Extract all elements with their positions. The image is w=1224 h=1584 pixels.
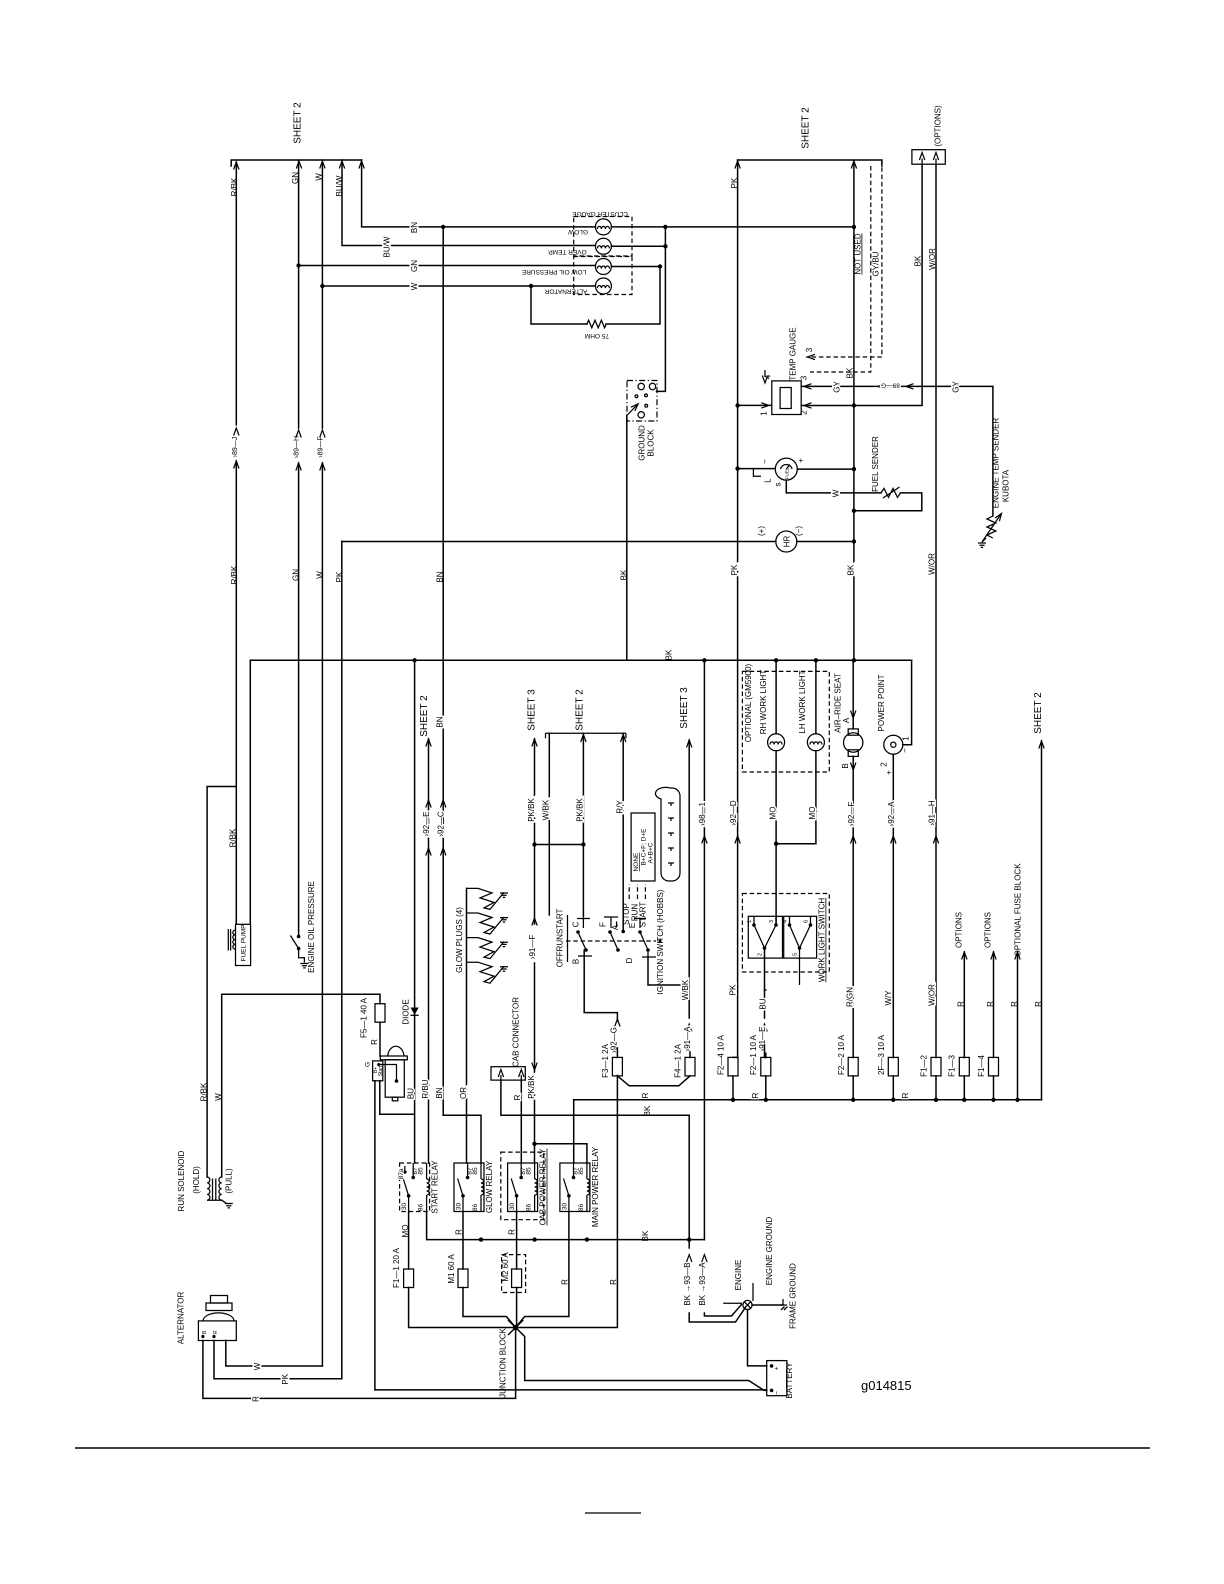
svg-text:W: W bbox=[214, 1093, 223, 1101]
svg-text:›89—F: ›89—F bbox=[317, 436, 324, 457]
svg-text:86: 86 bbox=[472, 1204, 479, 1212]
svg-text:BK: BK bbox=[914, 255, 923, 266]
svg-text:(PULL): (PULL) bbox=[225, 1168, 234, 1194]
svg-text:4: 4 bbox=[783, 920, 789, 923]
svg-text:ENGINE OIL PRESSURE: ENGINE OIL PRESSURE bbox=[307, 881, 316, 973]
svg-text:R/BK: R/BK bbox=[230, 565, 239, 584]
wire BK down to 93-B junction bbox=[687, 1115, 691, 1248]
ignition key icon bbox=[655, 787, 680, 881]
svg-text:RUN SOLENOID: RUN SOLENOID bbox=[177, 1150, 186, 1211]
svg-text:BK: BK bbox=[643, 1105, 652, 1116]
svg-text:GN: GN bbox=[410, 260, 419, 272]
svg-text:NONE: NONE bbox=[633, 852, 640, 871]
top-left off-page bus to SHEET 2 bbox=[231, 102, 364, 169]
svg-text:PK: PK bbox=[730, 564, 739, 575]
svg-text:›98—1: ›98—1 bbox=[698, 801, 707, 826]
svg-text:GLOW PLUGS (4): GLOW PLUGS (4) bbox=[455, 907, 464, 973]
svg-text:R: R bbox=[609, 1279, 618, 1285]
svg-text:LH WORK LIGHT: LH WORK LIGHT bbox=[798, 670, 807, 733]
battery bbox=[767, 1361, 794, 1399]
svg-text:85: 85 bbox=[578, 1167, 585, 1175]
svg-text:BK: BK bbox=[847, 564, 856, 575]
svg-text:F2—2 10 A: F2—2 10 A bbox=[837, 1034, 846, 1075]
svg-text:›92—F: ›92—F bbox=[847, 802, 856, 827]
svg-text:BN: BN bbox=[436, 571, 445, 582]
svg-text:86: 86 bbox=[526, 1204, 533, 1212]
svg-text:START: START bbox=[638, 902, 647, 928]
svg-text:−: − bbox=[774, 1391, 781, 1395]
wire R bus right end to SHEET 2 bbox=[1033, 692, 1044, 1100]
svg-text:3: 3 bbox=[805, 347, 814, 352]
svg-text:FUEL SENDER: FUEL SENDER bbox=[871, 436, 880, 492]
fuse F1-1 20 A bbox=[392, 1247, 516, 1327]
svg-text:1: 1 bbox=[901, 736, 910, 741]
svg-text:Start: Start bbox=[378, 1065, 384, 1076]
wire BU/W bbox=[335, 160, 595, 257]
svg-text:›91—H: ›91—H bbox=[927, 800, 936, 826]
alternator bbox=[177, 1292, 237, 1345]
fuel pump bbox=[228, 924, 250, 965]
svg-text:›92—E: ›92—E bbox=[422, 812, 431, 837]
svg-text:F1—4: F1—4 bbox=[977, 1055, 986, 1077]
svg-text:CAB CONNECTOR: CAB CONNECTOR bbox=[512, 997, 521, 1067]
svg-text:F: F bbox=[599, 922, 608, 927]
wire R/Y to ignition bbox=[615, 733, 625, 933]
lamp LH work light bbox=[774, 660, 825, 846]
fuse F1-3 bbox=[948, 1055, 970, 1102]
glow plug 2 bbox=[467, 913, 509, 934]
svg-text:›91—A: ›91—A bbox=[683, 1026, 692, 1052]
svg-text:A: A bbox=[611, 924, 620, 930]
wire R feed to F5-1 and starter bbox=[222, 994, 380, 1045]
wire work light to switch bbox=[775, 844, 777, 925]
wire W horizontal to ALTERNATOR lamp bbox=[320, 282, 595, 290]
wire W/BK sheet3 connector (ignition A) bbox=[679, 687, 692, 1052]
svg-text:START RELAY: START RELAY bbox=[431, 1160, 440, 1214]
svg-text:F1—3: F1—3 bbox=[948, 1055, 957, 1077]
wire W alternator bbox=[226, 1341, 323, 1371]
svg-text:PK: PK bbox=[728, 984, 737, 995]
wire F1-4 column to OPTIONS bbox=[984, 912, 997, 1058]
svg-text:W/OR: W/OR bbox=[928, 248, 937, 270]
svg-text:BU/W: BU/W bbox=[383, 236, 392, 257]
wire cab connector right pin R to cab relay 87 bbox=[513, 1080, 522, 1163]
svg-text:ENGINE TEMP SENDER: ENGINE TEMP SENDER bbox=[992, 418, 1001, 509]
svg-text:NOT USED: NOT USED bbox=[854, 233, 863, 274]
svg-text:ENGINE GROUND: ENGINE GROUND bbox=[765, 1217, 774, 1286]
svg-text:86: 86 bbox=[578, 1204, 585, 1212]
svg-text:HR: HR bbox=[783, 536, 792, 548]
svg-text:OFFRUNSTART: OFFRUNSTART bbox=[555, 908, 564, 967]
svg-text:OPTIONAL FUSE BLOCK: OPTIONAL FUSE BLOCK bbox=[1014, 863, 1023, 957]
svg-text:F1—1 20 A: F1—1 20 A bbox=[392, 1247, 401, 1288]
fuse F4-1 2A bbox=[673, 1043, 695, 1077]
svg-text:BK →93—B: BK →93—B bbox=[683, 1262, 692, 1305]
svg-text:LOW OIL PRESSURE: LOW OIL PRESSURE bbox=[521, 268, 586, 275]
wire MO start relay 30 to F1-1 bbox=[401, 1211, 410, 1269]
engine temp sender bbox=[978, 418, 1010, 548]
fuse F2-2 10 A bbox=[837, 1034, 858, 1102]
svg-text:DIODE: DIODE bbox=[402, 999, 411, 1024]
svg-text:89—G: 89—G bbox=[881, 382, 900, 389]
svg-text:BK: BK bbox=[665, 649, 674, 660]
svg-text:PK/BK: PK/BK bbox=[527, 1075, 536, 1099]
svg-text:SHEET 3: SHEET 3 bbox=[679, 687, 690, 729]
lamp ALTERNATOR bbox=[544, 278, 611, 295]
svg-text:›91—E: ›91—E bbox=[758, 1027, 767, 1052]
svg-text:3: 3 bbox=[800, 375, 809, 380]
svg-text:+: + bbox=[885, 770, 894, 775]
fuel sender resistor loop bbox=[786, 436, 922, 513]
svg-text:F2—4 10 A: F2—4 10 A bbox=[717, 1034, 726, 1075]
lamp GLOW bbox=[567, 219, 611, 235]
wire junction to battery (+) bbox=[523, 1335, 767, 1391]
svg-text:SHEET 3: SHEET 3 bbox=[527, 689, 538, 731]
wire R from F3-1 down to junction bbox=[516, 1076, 619, 1328]
svg-text:W/Y: W/Y bbox=[884, 990, 893, 1006]
svg-text:R: R bbox=[213, 1330, 219, 1334]
svg-text:30: 30 bbox=[401, 1203, 408, 1211]
wire W/BK to bracket bbox=[542, 733, 551, 915]
wire Start terminal to BU bbox=[380, 1081, 415, 1115]
fuse F1-2 bbox=[919, 1055, 941, 1102]
svg-text:BLOCK: BLOCK bbox=[647, 429, 656, 457]
svg-text:GN: GN bbox=[291, 172, 300, 184]
run solenoid bbox=[177, 1150, 234, 1211]
wire BK from fuel pump to BK bus bbox=[249, 660, 251, 924]
lamp LOW OIL PRESSURE bbox=[521, 259, 611, 276]
svg-text:OPTIONS: OPTIONS bbox=[955, 912, 964, 948]
svg-text:s: s bbox=[774, 483, 783, 487]
wire switch pin2 to 91-E / F2-1 bbox=[758, 948, 767, 1058]
svg-text:R: R bbox=[1034, 1001, 1043, 1007]
fuse F3-1 2A bbox=[601, 1043, 690, 1085]
svg-text:R: R bbox=[561, 1279, 570, 1285]
svg-text:R: R bbox=[901, 1092, 910, 1098]
svg-text:GY: GY bbox=[833, 381, 842, 393]
relay MAIN POWER RELAY bbox=[560, 1146, 600, 1227]
wire PK bus (right) bbox=[728, 160, 740, 1058]
svg-text:R: R bbox=[508, 1229, 517, 1235]
wire cab connector left pin to BK line bbox=[501, 1080, 689, 1115]
sheet 2 bracket over ignition wires bbox=[546, 689, 626, 742]
diode and wire BU to start relay 87 bbox=[402, 658, 419, 1163]
fuse F2-1 10 A bbox=[749, 1034, 771, 1102]
svg-text:›89—J: ›89—J bbox=[232, 437, 239, 458]
relay START RELAY bbox=[398, 1160, 440, 1214]
svg-text:M2 60 A: M2 60 A bbox=[501, 1252, 510, 1282]
glow plugs (4) bbox=[455, 888, 468, 1163]
svg-text:W: W bbox=[832, 489, 841, 497]
wire R/BK bus (fuel pump feed) bbox=[229, 162, 240, 924]
work light switch bbox=[742, 894, 829, 986]
svg-text:L: L bbox=[764, 478, 773, 483]
svg-text:85: 85 bbox=[472, 1167, 479, 1175]
svg-text:BN: BN bbox=[436, 716, 445, 727]
hour meter HR bbox=[342, 526, 856, 552]
air-ride seat bbox=[834, 660, 863, 1057]
wire to OPTIONAL FUSE BLOCK bbox=[1010, 863, 1023, 1100]
fuse F1-4 bbox=[977, 1055, 999, 1102]
svg-text:M1 60 A: M1 60 A bbox=[447, 1254, 456, 1284]
svg-text:›91—F: ›91—F bbox=[528, 935, 537, 960]
svg-text:GROUND: GROUND bbox=[638, 425, 647, 461]
wire PK/BK sheet3 connector and 91-F to cab power relay bbox=[527, 689, 587, 1163]
svg-text:F4—1 2A: F4—1 2A bbox=[673, 1043, 682, 1077]
dashed NOT USED lines bbox=[805, 160, 882, 372]
svg-text:PK: PK bbox=[730, 177, 739, 188]
svg-text:1: 1 bbox=[747, 920, 753, 923]
svg-text:BATTERY: BATTERY bbox=[785, 1362, 794, 1399]
fuse F5-1 40 A bbox=[359, 997, 385, 1056]
svg-text:FRAME GROUND: FRAME GROUND bbox=[788, 1263, 797, 1329]
fuel gauge bbox=[735, 458, 856, 487]
svg-text:2: 2 bbox=[880, 762, 889, 767]
wire 98-1 from BK bus down to 93-A bbox=[698, 660, 707, 1239]
svg-text:4: 4 bbox=[764, 374, 773, 379]
ground block (dash-dot) bbox=[627, 381, 657, 461]
connector 93-A to engine ground bbox=[698, 1255, 742, 1316]
svg-text:85: 85 bbox=[526, 1167, 533, 1175]
relay BK coil-return bus bbox=[427, 1211, 705, 1241]
svg-text:JUNCTION BLOCK: JUNCTION BLOCK bbox=[498, 1327, 507, 1397]
power point bbox=[877, 660, 912, 1057]
wire glow lamp to BK corner bbox=[611, 161, 854, 660]
svg-text:W/OR: W/OR bbox=[928, 984, 937, 1006]
wire GY temp sender line bbox=[801, 381, 993, 516]
wire main relay 30 to junction bbox=[516, 1211, 570, 1327]
wire GN bus bbox=[291, 160, 301, 936]
wire battery cable (starter to battery -) bbox=[375, 1389, 767, 1391]
svg-text:(HOLD): (HOLD) bbox=[192, 1166, 201, 1194]
svg-text:BN: BN bbox=[435, 1087, 444, 1098]
engine oil pressure switch bbox=[290, 881, 316, 973]
svg-text:R: R bbox=[1010, 1001, 1019, 1007]
svg-text:B+C+F; D+E: B+C+F; D+E bbox=[640, 828, 647, 866]
svg-text:F5—1 40 A: F5—1 40 A bbox=[359, 997, 368, 1038]
relay CAB POWER RELAY bbox=[501, 1148, 548, 1225]
wire W bus bbox=[315, 160, 325, 1366]
connector 93-B to engine ground bbox=[683, 1255, 745, 1322]
wire R alternator to junction block bbox=[203, 1328, 516, 1402]
svg-text:B: B bbox=[202, 1330, 208, 1334]
svg-text:3: 3 bbox=[769, 920, 775, 923]
frame ground bbox=[752, 1263, 797, 1329]
wire to ground block bbox=[657, 246, 666, 391]
svg-text:OPTIONAL (GM5900): OPTIONAL (GM5900) bbox=[744, 663, 753, 742]
svg-text:BN: BN bbox=[410, 222, 419, 233]
svg-text:75 OHM: 75 OHM bbox=[585, 332, 609, 339]
svg-text:W: W bbox=[315, 173, 324, 181]
svg-text:W/BK: W/BK bbox=[681, 979, 690, 1000]
svg-text:SHEET 2: SHEET 2 bbox=[574, 689, 585, 731]
svg-text:A+B+C: A+B+C bbox=[647, 842, 654, 863]
wire W/OR bus (right) bbox=[927, 164, 938, 1057]
svg-text:BU: BU bbox=[758, 998, 767, 1009]
svg-text:R: R bbox=[370, 1039, 379, 1045]
svg-text:5: 5 bbox=[793, 953, 799, 956]
wire PK left bus vertical bbox=[335, 542, 344, 1379]
svg-text:30: 30 bbox=[509, 1203, 516, 1211]
lamp OVER TEMP bbox=[547, 238, 611, 255]
svg-text:SHEET 2: SHEET 2 bbox=[419, 695, 430, 737]
svg-text:PK: PK bbox=[335, 571, 344, 582]
ignition legend STOP RUN START bbox=[622, 813, 655, 927]
wire BN bus vertical bbox=[435, 227, 481, 1163]
svg-text:SHEET 2: SHEET 2 bbox=[293, 102, 304, 144]
svg-text:6: 6 bbox=[804, 920, 810, 923]
wire BN from top bus bbox=[362, 160, 596, 233]
wire overtemp right bbox=[611, 245, 665, 247]
fuse F2-4 10 A bbox=[717, 1034, 738, 1102]
svg-text:BK: BK bbox=[846, 367, 855, 378]
wire low-oil right bbox=[611, 266, 660, 268]
fuse M2 60 A (dashed holder) bbox=[501, 1252, 526, 1328]
BK bus horizontal bbox=[250, 649, 911, 663]
svg-text:87a: 87a bbox=[398, 1168, 405, 1179]
svg-text:+: + bbox=[774, 1366, 781, 1370]
wire jumper glow to overtemp bbox=[663, 225, 667, 249]
glow plug 4 bbox=[467, 962, 509, 983]
svg-text:1: 1 bbox=[760, 411, 769, 416]
svg-text:F2—1 10 A: F2—1 10 A bbox=[749, 1034, 758, 1075]
svg-text:PK/BK: PK/BK bbox=[527, 798, 536, 822]
footer mark bbox=[585, 1512, 641, 1514]
svg-text:GLOW RELAY: GLOW RELAY bbox=[485, 1160, 494, 1213]
svg-text:R/BK: R/BK bbox=[200, 1082, 209, 1101]
cluster gauge dashed boxes bbox=[572, 210, 632, 295]
wire PK/BK to ignition C bbox=[576, 733, 585, 917]
wire engine ground to battery + bbox=[748, 1310, 767, 1366]
svg-text:CLUSTER GAUGE: CLUSTER GAUGE bbox=[572, 210, 628, 217]
svg-text:›92—C: ›92—C bbox=[437, 811, 446, 837]
svg-text:A: A bbox=[842, 717, 851, 723]
relay GLOW RELAY bbox=[454, 1160, 494, 1213]
svg-text:GN: GN bbox=[292, 569, 301, 581]
wire R/BK to run solenoid bbox=[200, 787, 237, 1178]
svg-text:BU: BU bbox=[407, 1088, 416, 1099]
starter motor bbox=[364, 1046, 407, 1101]
svg-text:PK/BK: PK/BK bbox=[576, 798, 585, 822]
svg-text:W: W bbox=[315, 571, 324, 579]
svg-text:MO: MO bbox=[401, 1225, 410, 1238]
ground block switch arm and BK drop wire bbox=[620, 402, 641, 660]
svg-text:KUBOTA: KUBOTA bbox=[1001, 469, 1010, 502]
temp gauge bbox=[735, 327, 808, 415]
svg-text:BU/W: BU/W bbox=[335, 175, 344, 196]
svg-text:OVER TEMP.: OVER TEMP. bbox=[547, 248, 586, 255]
svg-text:W/BK: W/BK bbox=[542, 799, 551, 820]
svg-text:›89—H: ›89—H bbox=[294, 436, 301, 458]
svg-text:W: W bbox=[253, 1362, 262, 1370]
svg-text:30: 30 bbox=[456, 1203, 463, 1211]
svg-text:R/GN: R/GN bbox=[845, 987, 854, 1007]
svg-text:W/OR: W/OR bbox=[928, 553, 937, 575]
svg-text:2: 2 bbox=[758, 953, 764, 956]
svg-text:POWER POINT: POWER POINT bbox=[877, 674, 886, 731]
wire PK alternator bbox=[214, 1341, 342, 1385]
wire battery cable from starter B+ bbox=[374, 1081, 376, 1390]
svg-text:R: R bbox=[986, 1001, 995, 1007]
svg-text:(−): (−) bbox=[795, 526, 804, 536]
svg-text:WORK LIGHT SWITCH: WORK LIGHT SWITCH bbox=[818, 898, 827, 983]
svg-text:MO: MO bbox=[808, 807, 817, 820]
svg-text:R: R bbox=[957, 1001, 966, 1007]
svg-text:+: + bbox=[797, 458, 806, 463]
svg-text:ALTERNATOR: ALTERNATOR bbox=[544, 288, 587, 295]
svg-text:›92—D: ›92—D bbox=[729, 800, 738, 826]
svg-text:(OPTIONS): (OPTIONS) bbox=[933, 105, 942, 147]
junction block X bbox=[498, 1321, 522, 1398]
svg-text:F3—1 2A: F3—1 2A bbox=[601, 1043, 610, 1077]
wire BK gauge bus labels bbox=[846, 367, 856, 575]
svg-text:GY: GY bbox=[951, 381, 960, 393]
fuse M1 60 A bbox=[447, 1254, 516, 1328]
svg-text:F1—2: F1—2 bbox=[919, 1055, 928, 1077]
svg-text:B: B bbox=[841, 763, 850, 768]
glow plug 1 bbox=[467, 888, 509, 909]
svg-text:−: − bbox=[761, 459, 770, 464]
svg-text:W: W bbox=[410, 282, 419, 290]
work lights dashed box bbox=[742, 663, 829, 772]
top-right off-page bus to SHEET 2 bbox=[735, 107, 882, 169]
svg-text:SHEET 2: SHEET 2 bbox=[1033, 692, 1044, 734]
svg-text:ENGINE: ENGINE bbox=[734, 1260, 743, 1291]
wire F1-3 column to OPTIONS bbox=[955, 912, 968, 1058]
svg-text:D: D bbox=[625, 957, 634, 963]
svg-text:R/BK: R/BK bbox=[229, 828, 238, 847]
svg-text:C: C bbox=[572, 921, 581, 927]
svg-text:BK: BK bbox=[641, 1230, 650, 1241]
svg-text:›92—A: ›92—A bbox=[887, 801, 896, 827]
resistor 75 OHM loop bbox=[529, 264, 662, 339]
svg-text:MAIN POWER RELAY: MAIN POWER RELAY bbox=[591, 1146, 600, 1227]
svg-text:85: 85 bbox=[418, 1167, 425, 1175]
wire ignition D to 91-A / F4-1 bbox=[648, 957, 689, 1018]
wire ignition B to 92-G / F3-1 bbox=[584, 950, 620, 1053]
svg-text:R/Y: R/Y bbox=[615, 800, 624, 814]
svg-text:2F—3 10 A: 2F—3 10 A bbox=[877, 1034, 886, 1075]
svg-text:R: R bbox=[455, 1229, 464, 1235]
svg-text:g014815: g014815 bbox=[861, 1378, 912, 1393]
cab connector bbox=[491, 997, 525, 1080]
engine ground point bbox=[723, 1217, 774, 1310]
svg-text:G: G bbox=[364, 1062, 371, 1067]
wire GN horizontal to LOW OIL lamp bbox=[296, 260, 595, 272]
wire R/BU start-relay coil feed with 92-E connector bbox=[419, 695, 431, 1163]
svg-text:R: R bbox=[751, 1092, 760, 1098]
(OPTIONS) connector box bbox=[912, 105, 945, 164]
svg-text:FUEL: FUEL bbox=[785, 467, 790, 479]
wire cab relay 30 to M2 bbox=[508, 1211, 517, 1269]
svg-text:GY/BU: GY/BU bbox=[872, 251, 881, 276]
svg-text:MO: MO bbox=[768, 807, 777, 820]
svg-text:R/BU: R/BU bbox=[421, 1079, 430, 1098]
svg-text:R: R bbox=[251, 1396, 260, 1402]
svg-text:R: R bbox=[513, 1094, 522, 1100]
fuse 2F-3 10 A bbox=[877, 1034, 898, 1102]
svg-text:BK →93—A: BK →93—A bbox=[698, 1262, 707, 1306]
svg-text:R/BK: R/BK bbox=[230, 177, 239, 196]
bottom rule bbox=[75, 1447, 1150, 1449]
wire R glow relay 30 to M1 bbox=[455, 1211, 464, 1269]
svg-text:−: − bbox=[901, 748, 910, 753]
svg-text:B: B bbox=[572, 959, 581, 964]
svg-text:R: R bbox=[641, 1092, 650, 1098]
svg-text:ALTERNATOR: ALTERNATOR bbox=[177, 1292, 186, 1345]
svg-text:(+): (+) bbox=[757, 526, 766, 536]
wire BK from options box to temp gauge pin 2 bbox=[800, 164, 923, 415]
